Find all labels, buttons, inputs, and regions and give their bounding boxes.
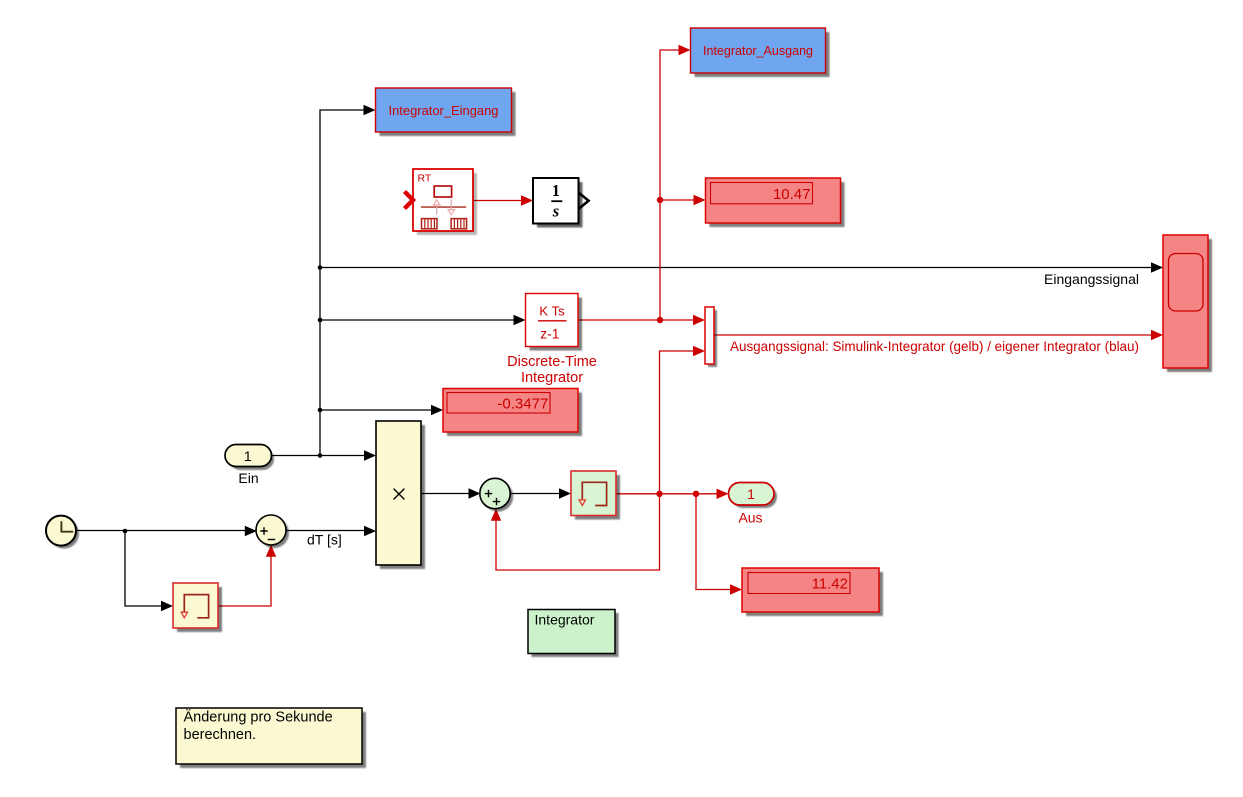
wire: Rate Transition output to 1/s integrator (red) [473, 195, 533, 205]
integrator block 1/s [533, 178, 589, 228]
goto tag Integrator_Ausgang [691, 28, 830, 77]
inport Ein [225, 445, 274, 487]
wire: feedback to Sum2 bottom input (red) [491, 494, 660, 570]
svg-text:Integrator: Integrator [535, 612, 595, 628]
svg-text:Änderung pro Sekunde: Änderung pro Sekunde [184, 708, 333, 725]
display block -0.3477 [443, 389, 582, 437]
memory block Memory2 [571, 471, 620, 520]
wire: trunk branch to Scope input 1 (Eingangssignal) [318, 262, 1163, 287]
display block 10.47 [706, 178, 845, 227]
sum block Sum2 (+ +) [480, 478, 513, 511]
svg-text:Discrete-Time: Discrete-Time [507, 354, 597, 370]
svg-text:10.47: 10.47 [773, 186, 811, 203]
sum block Sum1 (+ -) [256, 515, 289, 548]
svg-text:Ausgangssignal: Simulink-Integ: Ausgangssignal: Simulink-Integrator (gel… [730, 338, 1139, 354]
svg-text:Aus: Aus [738, 509, 762, 525]
wire: branch up to Mux input 2 (red) [660, 346, 706, 494]
svg-text:Eingangssignal: Eingangssignal [1044, 271, 1139, 287]
discrete-time integrator block K Ts / z-1 [526, 294, 583, 351]
wire: Sum2 output to Memory2 [510, 488, 571, 498]
svg-text:Ein: Ein [238, 470, 258, 486]
svg-text:dT [s]: dT [s] [307, 532, 342, 548]
annotation Änderung pro Sekunde berechnen (yellow note) [176, 708, 366, 768]
wire: red trunk branch to Display 10.47 [657, 195, 706, 205]
rate transition block RT [405, 169, 478, 235]
svg-text:K Ts: K Ts [539, 304, 565, 319]
svg-text:1: 1 [552, 181, 560, 200]
svg-text:s: s [552, 201, 559, 220]
scope block [1163, 235, 1212, 372]
wire: Ein output to Product input 1 [271, 450, 376, 460]
mux block [705, 307, 717, 367]
wire: Clock output to Sum1 [77, 526, 257, 536]
svg-text:11.42: 11.42 [812, 576, 848, 593]
svg-text:1: 1 [747, 486, 755, 502]
svg-text:Integrator_Ausgang: Integrator_Ausgang [703, 43, 813, 58]
goto tag Integrator_Eingang [376, 88, 516, 136]
wire: black trunk up from Ein line to Integrator_Eingang [320, 105, 376, 456]
annotation Integrator (green note) [528, 610, 619, 658]
wire: Memory1 output up to Sum1 bottom input (red) [218, 545, 276, 606]
svg-text:berechnen.: berechnen. [184, 727, 257, 743]
label Discrete-Time Integrator [507, 354, 597, 386]
wire: Product output to Sum2 [421, 488, 481, 498]
wire: branch from clock line down to Memory1 input [125, 531, 173, 611]
svg-text:Integrator_Eingang: Integrator_Eingang [389, 103, 499, 118]
svg-text:-0.3477: -0.3477 [497, 395, 548, 412]
memory block Memory1 [173, 583, 222, 632]
outport Aus [729, 483, 778, 526]
svg-text:z-1: z-1 [540, 326, 559, 341]
display block 11.42 [742, 568, 883, 616]
wire: branch down to Display 11.42 (red) [696, 494, 742, 595]
product block × [376, 421, 425, 569]
wire: red trunk up to Integrator_Ausgang [660, 45, 691, 320]
wire: Sum1 output to Product input 2, label dT [s] [286, 526, 376, 548]
wire: Discrete-Time Integrator output to Mux input 1 (red) [578, 315, 705, 325]
wire: trunk branch to Discrete-Time Integrator input [318, 315, 526, 325]
wire: trunk branch to Display -0.3477 [318, 405, 443, 415]
wire: Memory2 output to Aus outport (red) [616, 489, 729, 499]
svg-text:1: 1 [244, 448, 252, 464]
wire: Mux output to Scope input 2 (red), label Ausgangssignal [714, 330, 1163, 354]
clock block [46, 516, 79, 549]
svg-text:RT: RT [418, 173, 432, 185]
svg-text:Integrator: Integrator [521, 370, 583, 386]
